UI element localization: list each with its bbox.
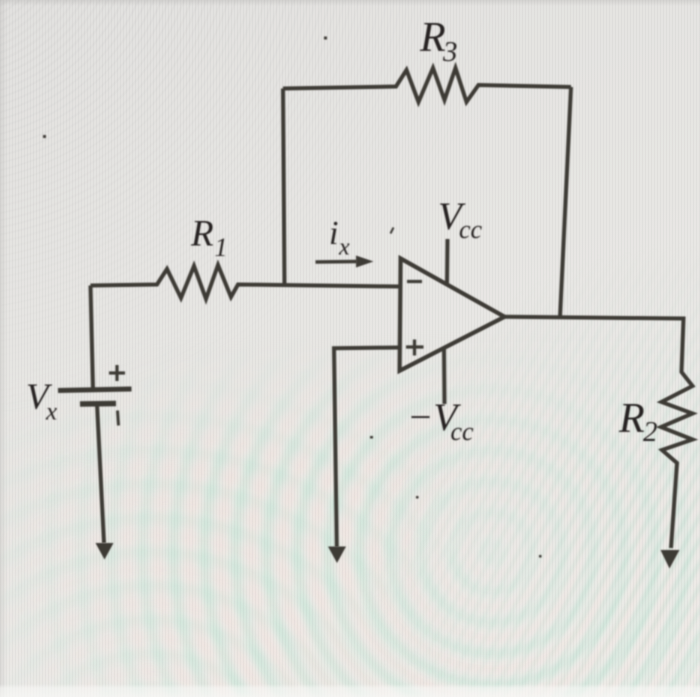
svg-text:R: R — [419, 15, 446, 61]
svg-text:1: 1 — [215, 233, 228, 262]
svg-text:cc: cc — [459, 215, 483, 244]
svg-text:cc: cc — [451, 417, 475, 446]
svg-text:x: x — [338, 235, 350, 261]
svg-text:R: R — [618, 396, 645, 442]
svg-text:3: 3 — [442, 36, 458, 68]
svg-text:x: x — [45, 399, 57, 426]
svg-text:i: i — [329, 215, 338, 252]
svg-text:R: R — [190, 214, 214, 255]
svg-text:2: 2 — [643, 416, 658, 448]
